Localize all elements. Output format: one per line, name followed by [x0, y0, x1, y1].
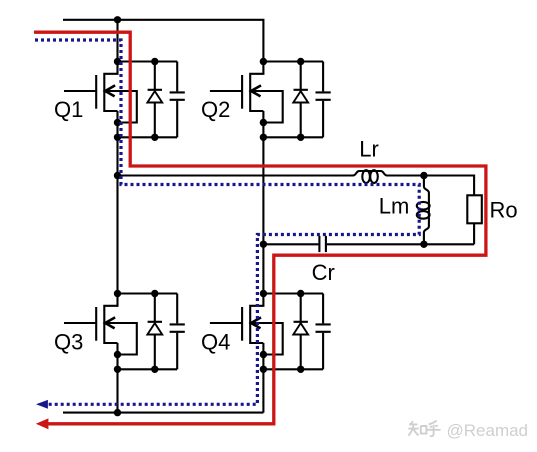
svg-text:Q4: Q4 [201, 329, 230, 354]
svg-text:Lm: Lm [379, 193, 410, 218]
svg-text:Q3: Q3 [54, 329, 83, 354]
svg-text:Cr: Cr [312, 260, 335, 285]
svg-text:Q2: Q2 [201, 97, 230, 122]
svg-text:Lr: Lr [359, 137, 379, 162]
svg-text:@Reamad: @Reamad [447, 421, 529, 440]
svg-text:Ro: Ro [490, 197, 518, 222]
svg-text:Q1: Q1 [54, 97, 83, 122]
